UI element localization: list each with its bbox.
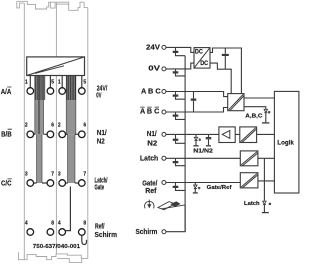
svg-text:0V: 0V bbox=[96, 91, 101, 100]
svg-text:1: 1 bbox=[58, 79, 61, 85]
svg-text:Ref: Ref bbox=[145, 186, 157, 195]
svg-text:C/C: C/C bbox=[1, 179, 12, 188]
svg-text:3: 3 bbox=[25, 171, 28, 177]
svg-text:5: 5 bbox=[51, 79, 54, 85]
svg-text:DC: DC bbox=[195, 50, 204, 56]
svg-text:A,B,C: A,B,C bbox=[245, 114, 262, 120]
svg-text:0V: 0V bbox=[148, 64, 160, 73]
svg-text:6: 6 bbox=[83, 123, 86, 129]
svg-text:N1/N2: N1/N2 bbox=[193, 149, 213, 155]
svg-text:A B C: A B C bbox=[141, 86, 161, 95]
svg-text:A/A: A/A bbox=[1, 87, 12, 96]
svg-text:Gate/Ref: Gate/Ref bbox=[207, 185, 232, 191]
svg-text:Schirm: Schirm bbox=[136, 227, 158, 236]
svg-text:1: 1 bbox=[25, 79, 28, 85]
svg-text:7: 7 bbox=[83, 171, 86, 177]
svg-text:24V: 24V bbox=[146, 42, 160, 51]
svg-text:B/B: B/B bbox=[1, 130, 12, 139]
svg-text:DC: DC bbox=[200, 61, 209, 67]
svg-text:6: 6 bbox=[51, 123, 54, 129]
svg-text:4: 4 bbox=[25, 220, 28, 226]
svg-text:Latch: Latch bbox=[244, 201, 260, 207]
svg-text:8: 8 bbox=[83, 220, 86, 226]
svg-text:Gate: Gate bbox=[95, 182, 105, 191]
svg-text:2: 2 bbox=[25, 123, 28, 129]
svg-text:N2: N2 bbox=[147, 138, 157, 147]
svg-text:2: 2 bbox=[58, 123, 61, 129]
svg-text:Latch: Latch bbox=[140, 153, 158, 162]
svg-text:Logik: Logik bbox=[277, 139, 294, 146]
svg-text:Schirm: Schirm bbox=[95, 230, 118, 239]
svg-text:A B C: A B C bbox=[140, 107, 159, 116]
svg-text:5: 5 bbox=[83, 79, 86, 85]
svg-text:750-637/040-001: 750-637/040-001 bbox=[33, 244, 81, 250]
svg-text:7: 7 bbox=[51, 171, 54, 177]
svg-text:4: 4 bbox=[58, 220, 61, 226]
svg-text:N1/: N1/ bbox=[147, 129, 157, 138]
svg-text:N2: N2 bbox=[97, 136, 105, 145]
svg-text:8: 8 bbox=[51, 220, 54, 226]
svg-text:3: 3 bbox=[58, 171, 61, 177]
